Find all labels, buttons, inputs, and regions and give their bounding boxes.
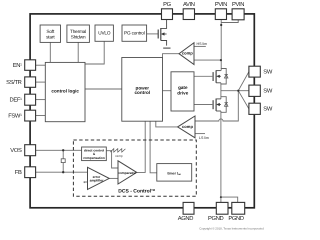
svg-text:FB: FB: [15, 170, 22, 176]
svg-text:SW: SW: [263, 106, 273, 113]
svg-text:PVIN: PVIN: [232, 2, 244, 8]
svg-text:control logic: control logic: [51, 88, 79, 93]
svg-text:AGND: AGND: [178, 215, 194, 222]
svg-text:Soft: Soft: [46, 29, 55, 34]
svg-text:PG control: PG control: [124, 30, 145, 35]
svg-text:Thermal: Thermal: [70, 29, 86, 34]
svg-text:gate: gate: [178, 85, 188, 90]
svg-text:VOS: VOS: [10, 147, 22, 154]
svg-text:PG: PG: [163, 1, 172, 8]
svg-text:Shtdwn: Shtdwn: [71, 35, 86, 40]
svg-text:comp: comp: [182, 124, 193, 129]
svg-text:amplifier: amplifier: [90, 179, 104, 183]
svg-text:Copyright © 2018, Texas Instru: Copyright © 2018, Texas Instruments Inco…: [199, 227, 264, 231]
svg-text:SW: SW: [263, 69, 273, 76]
svg-text:SW: SW: [263, 88, 273, 95]
svg-text:DCS - ControlTM: DCS - ControlTM: [118, 188, 155, 195]
svg-text:AVIN: AVIN: [183, 2, 195, 8]
svg-text:FSW1: FSW1: [8, 113, 22, 120]
svg-text:comparator: comparator: [118, 171, 137, 175]
svg-text:LS lim: LS lim: [199, 136, 209, 140]
svg-text:PVIN: PVIN: [215, 2, 227, 8]
svg-text:UVLO: UVLO: [98, 30, 111, 35]
svg-text:HS lim: HS lim: [197, 42, 208, 46]
svg-text:PGND: PGND: [228, 215, 244, 222]
svg-text:drive: drive: [177, 91, 188, 96]
svg-text:comp: comp: [182, 51, 193, 56]
svg-text:start: start: [46, 35, 55, 40]
svg-text:SS/TR: SS/TR: [6, 79, 21, 86]
svg-text:PGND: PGND: [208, 215, 224, 222]
svg-text:ramp: ramp: [115, 154, 122, 158]
svg-text:compensation: compensation: [83, 156, 105, 160]
svg-text:control: control: [135, 90, 151, 95]
